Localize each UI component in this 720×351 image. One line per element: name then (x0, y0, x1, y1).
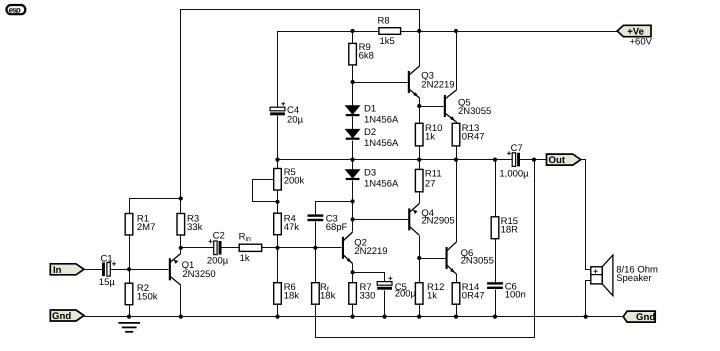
svg-text:33k: 33k (187, 222, 203, 233)
resistor R10 1k (415, 107, 442, 160)
wire: Q2 collector (352, 202, 354, 232)
svg-text:6k8: 6k8 (359, 51, 374, 62)
svg-text:68pF: 68pF (326, 222, 348, 233)
wire: Q2 emitter to R7/C5 node (351, 264, 355, 275)
resistor Rf 18k (312, 248, 336, 305)
capacitor C5 200µ (353, 273, 417, 319)
svg-text:1k5: 1k5 (380, 36, 395, 47)
ESP logo (7, 5, 26, 14)
svg-text:D3: D3 (364, 167, 376, 178)
node: mid / R3-Q1 emitter-C2 (179, 246, 183, 250)
wire: Q4 base line (351, 217, 409, 221)
svg-text:1k: 1k (427, 291, 437, 302)
wire: C1 to Q1 base (111, 267, 169, 271)
svg-text:Speaker: Speaker (616, 273, 651, 284)
resistor R5 200k (with wiper link) (253, 160, 305, 214)
svg-text:15µ: 15µ (99, 277, 116, 288)
output tag Out (547, 154, 581, 166)
svg-text:330: 330 (360, 291, 376, 302)
wire: Q3 collector to rail (419, 32, 421, 67)
svg-text:D2: D2 (364, 127, 376, 138)
power tag +Ve (617, 25, 651, 37)
svg-text:Gnd: Gnd (636, 312, 655, 323)
svg-text:1N456A: 1N456A (364, 114, 399, 125)
wire: C3 top link (316, 202, 353, 215)
node: output / R13-Q6 (454, 158, 458, 162)
svg-text:1k: 1k (240, 253, 250, 264)
svg-text:esp: esp (9, 5, 21, 14)
svg-text:1N456A: 1N456A (364, 178, 399, 189)
wire: Q5 collector to rail (456, 32, 458, 91)
resistor R3 33k (177, 199, 203, 248)
diode D3 1N456A (346, 160, 399, 190)
transistor Q2 2N2219 (342, 232, 388, 264)
wire: In to C1 (85, 269, 103, 271)
node: mid / R4-R6 (275, 246, 279, 250)
diode D1 1N456A (346, 83, 399, 126)
transistor Q4 2N2905 (408, 204, 454, 236)
resistor R15 18R (491, 160, 518, 283)
transistor Q3 2N2219 (408, 66, 455, 98)
svg-text:1,000µ: 1,000µ (499, 169, 529, 180)
svg-text:2N3055: 2N3055 (461, 256, 494, 267)
svg-text:Out: Out (549, 155, 566, 166)
wire: +Ve rail (278, 32, 618, 108)
node: mid / C3-Rf (313, 246, 317, 250)
node: output / R10-R11 (417, 158, 421, 162)
svg-text:47k: 47k (284, 222, 300, 233)
resistor R8 1k5 (horizontal) (378, 15, 401, 46)
wire: Q1 collector to ground rail (179, 286, 183, 319)
node: rail / R9 junction (351, 29, 355, 33)
svg-text:R8: R8 (378, 15, 390, 26)
capacitor C4 20µ (270, 100, 303, 160)
resistor R9 6k8 (349, 32, 374, 83)
transistor Q5 2N3055 (444, 90, 491, 122)
wire: Q4 collector to Q6 base node (417, 236, 421, 261)
svg-text:18R: 18R (501, 224, 519, 235)
svg-text:C2: C2 (213, 231, 225, 242)
resistor R13 0R47 (452, 123, 484, 159)
wire: ground rail (85, 316, 624, 318)
resistor R7 330 (349, 273, 376, 319)
transistor Q6 2N3055 (446, 242, 494, 274)
node: output / R15 (493, 158, 497, 162)
wire: Q3 emitter to R10 / Q5 base node (417, 98, 421, 109)
svg-text:18k: 18k (320, 291, 336, 302)
svg-text:2N3250: 2N3250 (182, 269, 215, 280)
svg-text:C1: C1 (101, 254, 113, 265)
speaker 8/16 Ohm (591, 255, 658, 296)
svg-text:+: + (593, 267, 598, 276)
svg-text:0R47: 0R47 (462, 132, 485, 143)
svg-text:18k: 18k (284, 291, 300, 302)
node: output / R5-C4 (275, 158, 279, 162)
ground tag Gnd (right) (623, 311, 655, 323)
svg-text:2N3055: 2N3055 (458, 106, 491, 117)
node: output / C7-feedback (532, 158, 536, 162)
wire: mid line (Rin to Q2 base) (181, 247, 342, 249)
ground tag Gnd (left) (50, 310, 84, 322)
wire: Q3 base line (351, 80, 408, 84)
svg-text:200k: 200k (284, 176, 305, 187)
wire: output node line (278, 159, 547, 161)
svg-text:2M7: 2M7 (137, 222, 155, 233)
label +60V (630, 37, 653, 48)
svg-text:100n: 100n (505, 290, 526, 301)
svg-text:2N2219: 2N2219 (354, 246, 387, 257)
svg-text:2N2219: 2N2219 (421, 79, 454, 90)
wire: Q6 collector to output node (456, 160, 458, 243)
resistor R14 0R47 (452, 274, 484, 319)
resistor R4 47k (274, 213, 300, 247)
svg-text:C7: C7 (511, 143, 523, 154)
input tag In (50, 264, 84, 276)
capacitor C6 100n (487, 281, 526, 318)
svg-text:1N456A: 1N456A (364, 138, 399, 149)
svg-text:200µ: 200µ (207, 256, 229, 267)
svg-text:0R47: 0R47 (462, 291, 485, 302)
svg-text:Gnd: Gnd (52, 311, 71, 322)
node: rail / Q5 collector junction (454, 29, 458, 33)
svg-text:D1: D1 (364, 104, 376, 115)
wire: output to speaker (581, 160, 592, 270)
diode D2 1N456A (346, 117, 399, 150)
capacitor C1 15µ (99, 254, 117, 288)
wire: Q5 emitter to R13 (456, 122, 458, 124)
wire: Q1 emitter to mid node (180, 248, 182, 254)
resistor R12 1k (415, 259, 444, 319)
resistor Rin 1k (horizontal) (239, 232, 262, 265)
wire: D2 cathode to output line (351, 141, 355, 162)
resistor R2 150k (125, 270, 158, 317)
capacitor C3 68pF (308, 214, 348, 248)
svg-text:+60V: +60V (630, 37, 653, 48)
node: gnd / R2 (127, 315, 131, 319)
svg-text:20µ: 20µ (287, 115, 304, 126)
resistor R11 27 (415, 160, 441, 204)
ground symbol (118, 323, 140, 332)
wire: Q6 base line (420, 258, 446, 260)
capacitor C7 1,000µ (499, 143, 529, 180)
svg-text:2N2905: 2N2905 (421, 216, 454, 227)
svg-text:150k: 150k (137, 292, 158, 303)
wire: D3 cathode to Q2 collector node (351, 181, 355, 204)
wire: speaker return to ground (584, 281, 592, 319)
capacitor C2 200µ (207, 231, 229, 267)
svg-text:1k: 1k (425, 132, 435, 143)
resistor R6 18k (274, 248, 300, 319)
svg-text:In: In (53, 265, 62, 276)
wire: top line R1 to R3/+60V (130, 196, 183, 213)
svg-text:27: 27 (425, 178, 436, 189)
resistor R1 2M7 (125, 214, 155, 270)
svg-text:200µ: 200µ (395, 289, 417, 300)
transistor Q1 2N3250 (169, 254, 216, 286)
wire: feedback line Rf to output (316, 160, 535, 338)
node: rail / Q3 collector junction (417, 29, 421, 33)
wire: +60V feed from rail to R1/R3 (top loop) (181, 10, 420, 199)
wire: Q5 base line (420, 106, 444, 108)
